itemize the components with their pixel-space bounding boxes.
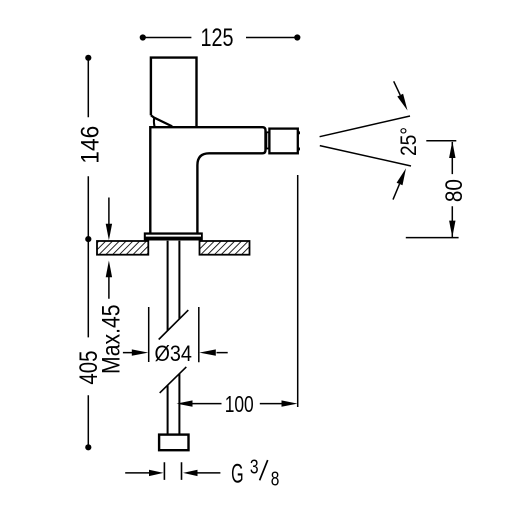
svg-text:8: 8	[271, 467, 280, 490]
svg-text:80: 80	[441, 179, 468, 202]
svg-text:100: 100	[225, 391, 254, 417]
svg-text:Ø34: Ø34	[154, 341, 192, 366]
svg-text:3: 3	[250, 455, 259, 478]
svg-text:25°: 25°	[396, 127, 421, 156]
svg-text:146: 146	[77, 126, 105, 164]
svg-text:125: 125	[201, 24, 234, 52]
svg-text:G: G	[231, 459, 244, 489]
svg-text:Max.45: Max.45	[98, 304, 126, 374]
